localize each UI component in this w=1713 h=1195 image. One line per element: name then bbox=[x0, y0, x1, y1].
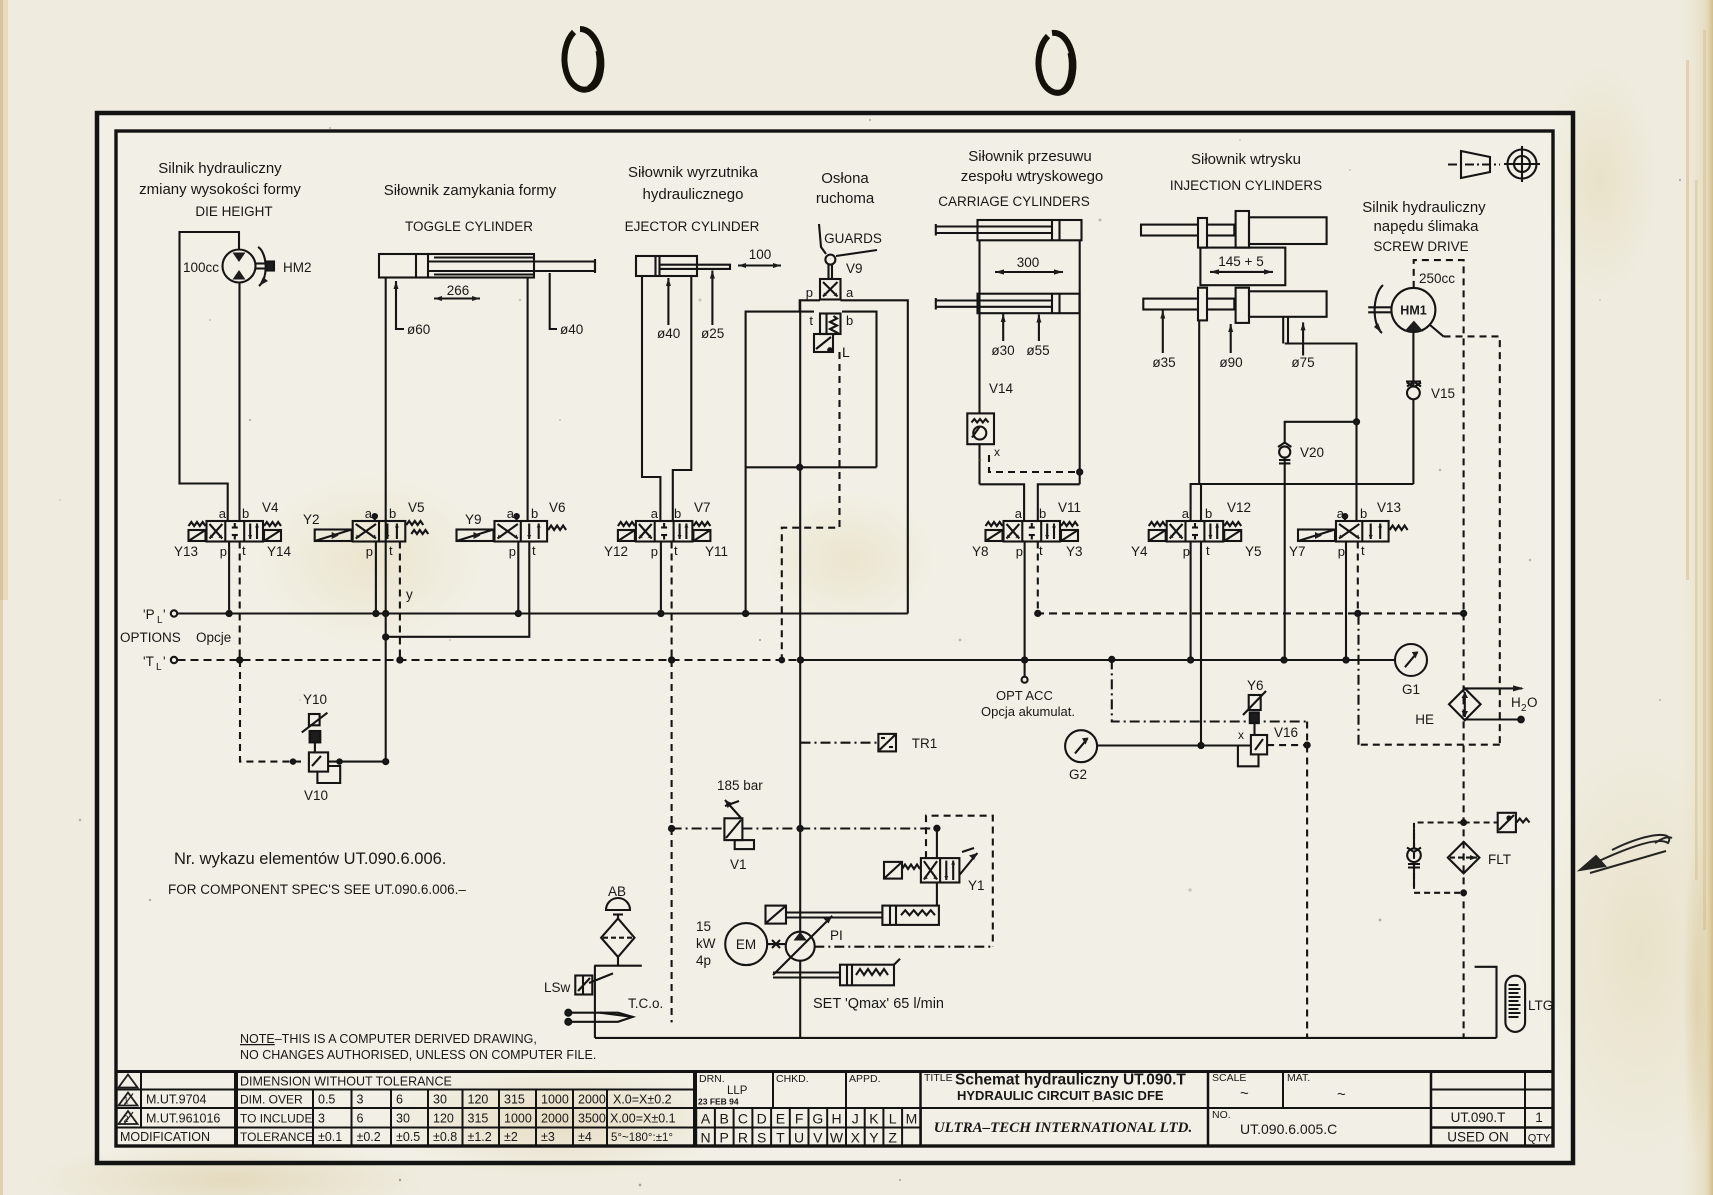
valve V7 ejector bbox=[618, 521, 711, 542]
wire V20 down bbox=[1284, 458, 1286, 660]
V1 dashdot to main line bbox=[742, 827, 800, 829]
svg-text:315: 315 bbox=[504, 1093, 525, 1107]
HM1 rotation arrow bbox=[1375, 285, 1383, 333]
svg-text:FOR COMPONENT SPEC'S SEE UT.09: FOR COMPONENT SPEC'S SEE UT.090.6.006.– bbox=[168, 882, 466, 897]
wire TL to V10 dashed bbox=[240, 660, 301, 762]
svg-text:TOLERANCE: TOLERANCE bbox=[240, 1130, 313, 1144]
TL rail solid part bbox=[801, 659, 1396, 661]
lower cartridge bbox=[840, 965, 894, 986]
TL rail dashed bbox=[178, 659, 801, 661]
svg-text:hydraulicznego: hydraulicznego bbox=[643, 186, 744, 203]
svg-text:±1.2: ±1.2 bbox=[468, 1130, 492, 1144]
svg-text:AB: AB bbox=[608, 884, 626, 899]
svg-text:t: t bbox=[1206, 543, 1210, 558]
svg-text:Y14: Y14 bbox=[267, 544, 292, 559]
case drain dashed to TL-branch bbox=[1359, 744, 1500, 746]
svg-text:G: G bbox=[812, 1111, 823, 1127]
svg-text:NO.: NO. bbox=[1212, 1109, 1231, 1121]
option dashed rail bbox=[1036, 612, 1464, 614]
injection top body bbox=[1249, 217, 1327, 244]
svg-text:ø30: ø30 bbox=[991, 343, 1014, 358]
svg-text:LLP: LLP bbox=[727, 1085, 748, 1097]
H2O out arrow bbox=[1465, 687, 1522, 689]
svg-text:Y6: Y6 bbox=[1247, 678, 1264, 693]
wire V11 t to option rail bbox=[1037, 542, 1039, 614]
svg-text:': ' bbox=[163, 607, 166, 622]
svg-text:±3: ±3 bbox=[541, 1130, 555, 1144]
svg-text:3500: 3500 bbox=[578, 1112, 606, 1126]
wire HM2 left loop bbox=[180, 232, 240, 521]
V5 a stub bbox=[374, 517, 376, 522]
svg-text:±0.1: ±0.1 bbox=[318, 1130, 342, 1144]
svg-text:'T: 'T bbox=[143, 654, 154, 669]
svg-text:V15: V15 bbox=[1431, 386, 1455, 401]
svg-text:P: P bbox=[720, 1130, 729, 1146]
svg-text:t: t bbox=[1361, 543, 1365, 558]
wire V10 to toggle line bbox=[328, 761, 386, 763]
svg-text:T.C.o.: T.C.o. bbox=[628, 996, 663, 1011]
svg-text:2000: 2000 bbox=[541, 1112, 569, 1126]
svg-text:1: 1 bbox=[123, 1096, 128, 1106]
svg-text:Y13: Y13 bbox=[174, 544, 198, 559]
svg-text:±2: ±2 bbox=[504, 1130, 518, 1144]
Y1 wire down bbox=[936, 828, 938, 858]
compensator piston bbox=[882, 906, 939, 925]
svg-text:M.UT.961016: M.UT.961016 bbox=[146, 1112, 220, 1126]
svg-text:4p: 4p bbox=[696, 953, 711, 968]
punch hole right bbox=[1038, 33, 1073, 93]
dim leader d40 rod bbox=[550, 273, 557, 329]
svg-text:NO CHANGES AUTHORISED, UNLESS: NO CHANGES AUTHORISED, UNLESS ON COMPUTE… bbox=[240, 1048, 596, 1062]
svg-text:±0.8: ±0.8 bbox=[433, 1130, 457, 1144]
svg-text:a: a bbox=[219, 506, 227, 521]
svg-text:p: p bbox=[651, 544, 658, 559]
HM1 case drain to right bbox=[1430, 325, 1444, 336]
svg-text:ø55: ø55 bbox=[1026, 343, 1049, 358]
toggle cylinder piston bbox=[415, 254, 417, 278]
thermometer TCo fork bbox=[568, 1013, 632, 1022]
svg-text:~: ~ bbox=[1240, 1085, 1249, 1102]
dim d30 bbox=[1002, 314, 1004, 341]
svg-text:b: b bbox=[531, 506, 538, 521]
AB stem bbox=[617, 957, 619, 966]
wire V13 t dashed bbox=[1357, 542, 1359, 614]
pump PI bbox=[786, 932, 815, 961]
svg-text:Y8: Y8 bbox=[972, 544, 989, 559]
svg-text:EM: EM bbox=[736, 937, 756, 952]
V9 stem bbox=[827, 265, 829, 280]
svg-text:B: B bbox=[720, 1111, 729, 1127]
wire carriage left down bbox=[978, 240, 980, 413]
svg-text:zespołu wtryskowego: zespołu wtryskowego bbox=[961, 168, 1104, 185]
svg-text:napędu ślimaka: napędu ślimaka bbox=[1373, 218, 1479, 235]
svg-text:V10: V10 bbox=[304, 788, 328, 803]
PL rail bbox=[178, 612, 908, 614]
svg-text:120: 120 bbox=[433, 1112, 454, 1126]
carriage top piston bbox=[1051, 220, 1053, 240]
svg-text:t: t bbox=[809, 313, 813, 328]
svg-text:Y7: Y7 bbox=[1289, 544, 1306, 559]
svg-text:DIMENSION WITHOUT TOLERANCE: DIMENSION WITHOUT TOLERANCE bbox=[240, 1075, 452, 1089]
pilot x dashed V14 bbox=[989, 455, 1080, 472]
transducer TR1 bbox=[801, 734, 897, 752]
svg-text:V14: V14 bbox=[989, 381, 1014, 396]
dim d90 bbox=[1230, 324, 1232, 353]
svg-text:Siłownik wyrzutnika: Siłownik wyrzutnika bbox=[628, 164, 759, 181]
first-angle projection symbol target bbox=[1508, 150, 1537, 179]
svg-text:C: C bbox=[738, 1111, 748, 1127]
V13 a stub bbox=[1344, 517, 1346, 522]
svg-text:ø60: ø60 bbox=[407, 322, 430, 337]
svg-text:V9: V9 bbox=[846, 261, 863, 276]
svg-text:M: M bbox=[906, 1111, 918, 1127]
svg-text:2: 2 bbox=[123, 1114, 128, 1124]
title block grid bbox=[116, 1072, 1553, 1147]
svg-text:zmiany wysokości formy: zmiany wysokości formy bbox=[139, 181, 301, 198]
svg-text:Silnik hydrauliczny: Silnik hydrauliczny bbox=[1362, 199, 1486, 216]
svg-text:S: S bbox=[757, 1130, 766, 1146]
svg-text:Y9: Y9 bbox=[465, 512, 482, 527]
pilot dashed rect around Y1 bbox=[926, 816, 993, 947]
valve V13 screw bbox=[1298, 521, 1408, 542]
svg-text:p: p bbox=[1183, 544, 1190, 559]
svg-text:a: a bbox=[846, 285, 854, 300]
svg-text:T: T bbox=[776, 1130, 785, 1146]
ejector cylinder body bbox=[636, 256, 697, 276]
svg-text:L: L bbox=[156, 662, 162, 673]
svg-text:266: 266 bbox=[447, 283, 470, 298]
svg-text:5°~180°:±1°: 5°~180°:±1° bbox=[611, 1132, 673, 1144]
svg-text:HM2: HM2 bbox=[283, 260, 312, 275]
coupling bbox=[766, 816, 993, 1038]
svg-text:SCREW DRIVE: SCREW DRIVE bbox=[1373, 239, 1468, 254]
svg-text:V7: V7 bbox=[694, 500, 711, 515]
svg-text:~: ~ bbox=[1337, 1086, 1346, 1103]
svg-text:N: N bbox=[700, 1130, 710, 1146]
svg-text:TR1: TR1 bbox=[912, 736, 938, 751]
wire V5 p bbox=[375, 542, 377, 614]
air breather AB bbox=[606, 898, 630, 910]
svg-text:p: p bbox=[366, 544, 373, 559]
valve V6 toggle2 bbox=[457, 521, 567, 542]
svg-text:6: 6 bbox=[396, 1093, 403, 1107]
svg-text:a: a bbox=[507, 506, 515, 521]
svg-text:b: b bbox=[1039, 506, 1046, 521]
svg-text:V16: V16 bbox=[1274, 725, 1298, 740]
svg-text:ruchoma: ruchoma bbox=[816, 190, 875, 207]
wire toggle right to V6 bbox=[527, 278, 529, 522]
pump suction down bbox=[799, 961, 801, 1038]
svg-text:y: y bbox=[406, 587, 413, 602]
carriage bottom rod bbox=[936, 299, 1052, 301]
valve V14 counterbalance bbox=[967, 413, 994, 444]
wire G2 to V16 bbox=[1097, 744, 1251, 746]
svg-text:HYDRAULIC CIRCUIT BASIC DFE: HYDRAULIC CIRCUIT BASIC DFE bbox=[957, 1088, 1164, 1103]
wire carriage right down bbox=[1079, 240, 1081, 484]
svg-text:NOTE–THIS IS A COMPUTER DERIVE: NOTE–THIS IS A COMPUTER DERIVED DRAWING, bbox=[240, 1032, 537, 1046]
svg-text:DRN.: DRN. bbox=[699, 1073, 725, 1085]
svg-text:O: O bbox=[1527, 695, 1538, 710]
dim d35 bbox=[1162, 311, 1164, 354]
svg-text:x: x bbox=[1238, 728, 1244, 742]
svg-text:1: 1 bbox=[1535, 1110, 1543, 1125]
valve V12 injection bbox=[1149, 521, 1242, 542]
svg-text:D: D bbox=[757, 1111, 767, 1127]
wire V7 t dashed continue to V1 bbox=[671, 660, 673, 1022]
svg-text:INJECTION CYLINDERS: INJECTION CYLINDERS bbox=[1170, 178, 1322, 193]
svg-text:F: F bbox=[795, 1111, 804, 1127]
valve V5 toggle bbox=[315, 521, 429, 542]
svg-text:a: a bbox=[1182, 506, 1190, 521]
svg-text:ø40: ø40 bbox=[560, 322, 583, 337]
ejector rod bbox=[660, 265, 731, 269]
svg-text:L: L bbox=[889, 1111, 897, 1127]
injection bottom flange bbox=[1198, 288, 1207, 321]
svg-text:R: R bbox=[738, 1130, 748, 1146]
main return dashed through HE bbox=[1463, 613, 1465, 1038]
wire ejector right port down bbox=[673, 276, 692, 521]
level switch LSw bbox=[575, 976, 592, 995]
guard circuit inner rect bbox=[746, 312, 814, 614]
svg-text:EJECTOR CYLINDER: EJECTOR CYLINDER bbox=[625, 219, 760, 234]
HM2 shaft bbox=[256, 262, 272, 264]
svg-text:Silnik hydrauliczny: Silnik hydrauliczny bbox=[158, 160, 282, 177]
svg-text:J: J bbox=[852, 1111, 859, 1127]
svg-text:M.UT.9704: M.UT.9704 bbox=[146, 1093, 206, 1107]
heater LTG bbox=[1475, 967, 1526, 1038]
handwritten pen arrow bbox=[1580, 835, 1672, 873]
svg-text:HE: HE bbox=[1415, 712, 1434, 727]
svg-text:t: t bbox=[674, 543, 678, 558]
svg-text:Opcje: Opcje bbox=[196, 630, 231, 645]
svg-text:Opcja akumulat.: Opcja akumulat. bbox=[981, 704, 1075, 719]
wire V7 p bbox=[660, 542, 662, 614]
svg-text:ø25: ø25 bbox=[701, 326, 724, 341]
svg-text:t: t bbox=[1039, 543, 1043, 558]
wire V12 p bbox=[1190, 542, 1192, 661]
svg-text:USED ON: USED ON bbox=[1447, 1130, 1509, 1145]
svg-text:W: W bbox=[830, 1130, 844, 1146]
svg-text:2000: 2000 bbox=[578, 1093, 606, 1107]
svg-text:'P: 'P bbox=[143, 607, 155, 622]
carriage cylinder top body bbox=[978, 220, 1082, 240]
svg-text:OPT ACC: OPT ACC bbox=[996, 688, 1053, 703]
svg-text:Y10: Y10 bbox=[303, 692, 327, 707]
svg-text:x: x bbox=[994, 445, 1000, 459]
valve V4 die-height bbox=[189, 521, 282, 542]
svg-text:GUARDS: GUARDS bbox=[824, 231, 882, 246]
U/B box left bbox=[766, 906, 787, 924]
svg-text:': ' bbox=[163, 654, 166, 669]
wire injection right port neck bbox=[1282, 317, 1284, 344]
svg-text:p: p bbox=[220, 544, 227, 559]
svg-text:L: L bbox=[842, 344, 850, 360]
OPT ACC stub bbox=[1024, 660, 1026, 677]
injection funnel bottom bbox=[1191, 484, 1200, 521]
H2O in line bbox=[1465, 718, 1520, 720]
svg-text:TITLE: TITLE bbox=[924, 1072, 953, 1084]
svg-text:145 + 5: 145 + 5 bbox=[1218, 254, 1263, 269]
svg-text:E: E bbox=[776, 1111, 785, 1127]
svg-text:G2: G2 bbox=[1069, 767, 1087, 782]
svg-text:UT.090.T: UT.090.T bbox=[1451, 1110, 1506, 1125]
svg-text:H: H bbox=[831, 1111, 841, 1127]
dim leader d60 bbox=[396, 281, 404, 329]
svg-text:CHKD.: CHKD. bbox=[776, 1073, 809, 1085]
svg-text:ø40: ø40 bbox=[657, 326, 680, 341]
svg-text:ø35: ø35 bbox=[1152, 355, 1175, 370]
wire ejector left port down bbox=[642, 276, 660, 521]
svg-text:±0.5: ±0.5 bbox=[396, 1130, 420, 1144]
svg-text:30: 30 bbox=[433, 1093, 447, 1107]
svg-text:CARRIAGE CYLINDERS: CARRIAGE CYLINDERS bbox=[938, 194, 1090, 209]
punch hole left bbox=[564, 29, 601, 90]
svg-text:PI: PI bbox=[830, 928, 843, 943]
first-angle projection symbol cone bbox=[1461, 151, 1490, 178]
gauge G2 bbox=[1065, 730, 1097, 762]
svg-text:SET 'Qmax' 65 l/min: SET 'Qmax' 65 l/min bbox=[813, 996, 944, 1012]
check valve V15 bbox=[1406, 380, 1421, 382]
dim 145+5 arrow bbox=[1210, 271, 1273, 273]
svg-text:DIM. OVER: DIM. OVER bbox=[240, 1093, 303, 1107]
FLT diamond bbox=[1448, 842, 1480, 874]
svg-text:V: V bbox=[813, 1130, 823, 1146]
HM1 drain dashed rect bbox=[1414, 260, 1464, 613]
svg-text:Y5: Y5 bbox=[1245, 544, 1262, 559]
valve V10 prefill bbox=[240, 660, 388, 783]
injection bottom body bbox=[1249, 291, 1327, 317]
dim 266 arrow bbox=[434, 297, 480, 299]
svg-text:TO INCLUDE: TO INCLUDE bbox=[240, 1112, 312, 1126]
svg-text:30: 30 bbox=[396, 1112, 410, 1126]
svg-text:100: 100 bbox=[749, 247, 772, 262]
svg-text:6: 6 bbox=[357, 1112, 364, 1126]
inner border frame bbox=[116, 131, 1553, 1146]
swash plate arrow bbox=[773, 916, 832, 975]
svg-text:23 FEB 94: 23 FEB 94 bbox=[698, 1097, 739, 1107]
svg-text:TOGGLE CYLINDER: TOGGLE CYLINDER bbox=[405, 219, 533, 234]
svg-text:Y4: Y4 bbox=[1131, 544, 1148, 559]
motor HM2 bbox=[223, 250, 256, 283]
dim d55 bbox=[1038, 315, 1040, 342]
svg-text:Y3: Y3 bbox=[1066, 544, 1083, 559]
wire to V13 b bbox=[1355, 484, 1357, 521]
svg-text:Nr. wykazu elementów UT.090.6.: Nr. wykazu elementów UT.090.6.006. bbox=[174, 850, 446, 868]
OPT ACC dashdot L bbox=[1109, 657, 1114, 662]
ejector dim d25 bbox=[711, 271, 713, 326]
svg-text:±4: ±4 bbox=[578, 1130, 592, 1144]
injection top cylinder rod bbox=[1141, 225, 1234, 236]
carriage top rod bbox=[936, 225, 1052, 227]
svg-text:A: A bbox=[701, 1111, 711, 1127]
V16 pilot dashed bbox=[1267, 744, 1307, 746]
svg-text:t: t bbox=[532, 543, 536, 558]
toggle cylinder rod bbox=[428, 262, 595, 272]
svg-text:Schemat hydrauliczny UT.090.T: Schemat hydrauliczny UT.090.T bbox=[955, 1072, 1186, 1089]
injection spacer bbox=[1200, 248, 1285, 286]
svg-text:b: b bbox=[389, 506, 396, 521]
revision triangle symbols bbox=[119, 1075, 138, 1125]
svg-text:a: a bbox=[651, 506, 659, 521]
svg-text:MAT.: MAT. bbox=[1287, 1072, 1310, 1084]
wire V6 p bbox=[517, 542, 519, 614]
wire rectA left to PL bbox=[743, 611, 748, 616]
svg-text:DIE HEIGHT: DIE HEIGHT bbox=[195, 204, 272, 219]
svg-text:a: a bbox=[365, 506, 373, 521]
gauge G1 bbox=[1395, 644, 1427, 676]
wire toggle left through V5 down to V10 bbox=[385, 278, 387, 762]
svg-text:p: p bbox=[509, 544, 516, 559]
ejector dim d40 bbox=[667, 278, 669, 325]
svg-text:0.5: 0.5 bbox=[318, 1093, 335, 1107]
injection top flange bbox=[1198, 218, 1207, 248]
wire V5 y pilot dashed bbox=[399, 542, 401, 661]
svg-text:ø90: ø90 bbox=[1219, 355, 1242, 370]
svg-text:V11: V11 bbox=[1058, 500, 1081, 515]
svg-text:315: 315 bbox=[468, 1112, 489, 1126]
wire V12 t to G2 line bbox=[1200, 542, 1202, 746]
svg-text:Y12: Y12 bbox=[604, 544, 628, 559]
FLT dashed box bbox=[1414, 823, 1464, 893]
svg-text:3: 3 bbox=[318, 1112, 325, 1126]
guard contact lines bbox=[819, 224, 826, 254]
svg-text:15: 15 bbox=[696, 919, 711, 934]
svg-text:LTG: LTG bbox=[1528, 998, 1553, 1013]
V9 lever actuator box bbox=[814, 334, 833, 352]
svg-text:FLT: FLT bbox=[1488, 852, 1511, 867]
guard circuit outer rect bbox=[800, 300, 820, 311]
svg-text:V12: V12 bbox=[1227, 500, 1251, 515]
wire V7 t dashed down bbox=[671, 542, 673, 661]
carriage cylinder bottom body bbox=[978, 294, 1080, 314]
svg-text:U: U bbox=[794, 1130, 804, 1146]
svg-text:3: 3 bbox=[357, 1093, 364, 1107]
svg-text:V20: V20 bbox=[1300, 445, 1324, 460]
svg-text:Siłownik przesuwu: Siłownik przesuwu bbox=[968, 148, 1091, 165]
L pilot dashed bbox=[782, 352, 840, 660]
svg-text:Y1: Y1 bbox=[968, 878, 985, 893]
svg-text:100cc: 100cc bbox=[183, 260, 219, 275]
svg-text:Z: Z bbox=[888, 1130, 897, 1146]
svg-text:b: b bbox=[242, 506, 249, 521]
carriage funnel bottom bbox=[980, 484, 1025, 521]
svg-text:UT.090.6.005.C: UT.090.6.005.C bbox=[1240, 1121, 1337, 1137]
svg-text:120: 120 bbox=[468, 1093, 489, 1107]
wire V14 down bbox=[978, 444, 980, 484]
HM1 shaft bbox=[1368, 306, 1391, 308]
wire V11 p to TL-sol bbox=[1024, 542, 1026, 661]
ejector piston bbox=[654, 256, 656, 276]
dim 100 arrow bbox=[738, 264, 781, 266]
svg-text:b: b bbox=[846, 313, 853, 328]
svg-text:300: 300 bbox=[1017, 255, 1040, 270]
svg-text:250cc: 250cc bbox=[1419, 271, 1455, 286]
svg-text:b: b bbox=[674, 506, 681, 521]
cartridge link bbox=[773, 971, 840, 973]
svg-text:V6: V6 bbox=[549, 500, 566, 515]
V6 a stub bbox=[516, 517, 518, 522]
svg-text:p: p bbox=[1338, 544, 1345, 559]
bottom tank rail bbox=[595, 1037, 1497, 1039]
toggle cylinder body bbox=[379, 254, 534, 278]
svg-text:ø75: ø75 bbox=[1291, 355, 1314, 370]
heat exchanger HE bbox=[1359, 613, 1525, 1038]
svg-text:Y2: Y2 bbox=[303, 512, 320, 527]
wire V20 bypass bbox=[1285, 422, 1357, 444]
filter FLT group bbox=[1407, 813, 1530, 895]
svg-text:G1: G1 bbox=[1402, 682, 1420, 697]
svg-text:APPD.: APPD. bbox=[849, 1073, 881, 1085]
